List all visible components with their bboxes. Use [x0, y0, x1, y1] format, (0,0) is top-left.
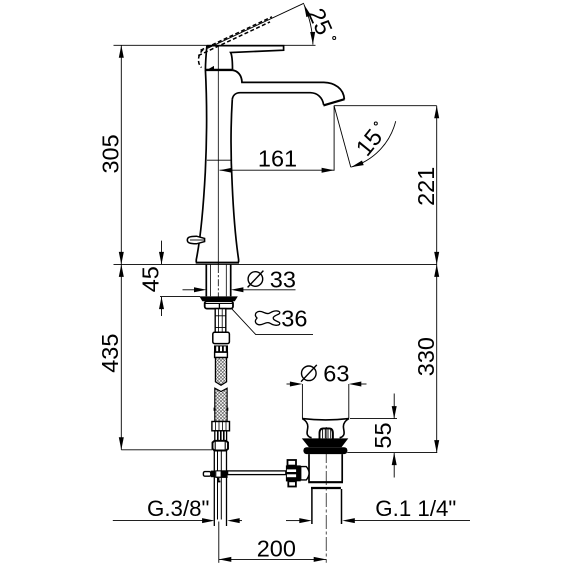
dimension 45 line: [159, 241, 200, 316]
hose lower knurled collar: [212, 422, 230, 431]
svg-text:G.1 1/4": G.1 1/4": [375, 496, 456, 521]
wrench icon: [255, 311, 279, 325]
drain flange bell: [302, 419, 349, 438]
dimension 161 line: [220, 168, 335, 173]
dimension 221 line: [434, 106, 439, 265]
spout outlet face: [323, 99, 344, 105]
column right edge: [231, 99, 239, 262]
hose knurled collar: [214, 345, 228, 357]
column left edge: [196, 70, 206, 262]
faucet cap joint: [205, 69, 233, 71]
rod adjuster knurled nut: [286, 460, 297, 487]
rod adjuster black band: [297, 465, 301, 481]
dimension G.1 1/4 line: [286, 518, 470, 523]
mounting washer (black): [199, 296, 237, 301]
hose connector block: [213, 332, 230, 343]
svg-text:55: 55: [370, 422, 396, 448]
svg-text:305: 305: [97, 134, 123, 173]
shank below deck: [206, 265, 230, 297]
svg-text:33: 33: [270, 267, 296, 293]
pop-up rod knob: [187, 236, 204, 244]
handle base wedge: [207, 66, 215, 70]
dimension 305 line: [119, 45, 124, 264]
hose threaded segment: [215, 431, 227, 441]
svg-text:G.3/8": G.3/8": [147, 496, 209, 521]
dimension 435 line: [119, 264, 124, 449]
ball rod socket: [301, 467, 309, 480]
drain plug knob: [320, 428, 333, 438]
horizontal pop-up rod: [228, 471, 286, 475]
extension line: deck / mounting surface: [114, 263, 437, 265]
braided hose upper: [215, 358, 226, 386]
svg-text:435: 435: [97, 334, 123, 373]
svg-text:221: 221: [413, 167, 439, 206]
degree mark 15: [374, 122, 377, 125]
dimension G.3/8 line: [113, 518, 242, 523]
drain centerline: [325, 427, 327, 563]
svg-text:200: 200: [257, 536, 296, 562]
extension line: spout outlet level: [334, 105, 437, 107]
drain gasket bar (black): [303, 447, 347, 454]
drain valve body: [308, 454, 343, 488]
extension line: handle top level: [114, 44, 316, 46]
spout inner contour: [232, 93, 323, 105]
spout outer contour: [233, 70, 345, 99]
faucet lever handle: [207, 46, 284, 70]
dimension 200 line: [219, 522, 326, 563]
angle 15 vertical leg: [333, 106, 335, 171]
svg-text:330: 330: [413, 337, 439, 376]
angle 15 slanted leg: [334, 106, 351, 167]
extension line: hose end level (bottom left): [121, 449, 212, 451]
dimension 55 line: [350, 394, 397, 478]
faucet centerline: [217, 45, 219, 266]
angle 25 line: [208, 3, 305, 48]
mounting nut: [205, 301, 233, 308]
faucet neck left edge: [205, 46, 207, 70]
drain tailpipe: [312, 489, 342, 524]
column joint tick: [207, 159, 231, 161]
angle 15 arc: [350, 121, 395, 169]
dimension D63 text: [301, 361, 349, 387]
braided hose lower: [215, 388, 227, 421]
base bottom edge: [196, 262, 239, 264]
rod clamp: [203, 470, 227, 482]
dimension D33 line: [183, 287, 296, 292]
svg-text:161: 161: [258, 146, 297, 172]
hose tail tube: [214, 451, 226, 526]
hose upper tube: [215, 309, 226, 333]
dimension 330 line: [434, 264, 439, 452]
angle 25 arc: [302, 4, 316, 45]
degree mark 25: [333, 37, 336, 40]
open handle dashed outline: [198, 17, 272, 68]
drain gasket (black trapezoid): [302, 438, 349, 447]
extension line: drain outlet level (bottom right): [347, 452, 437, 454]
svg-text:45: 45: [138, 266, 164, 292]
svg-text:36: 36: [281, 305, 307, 331]
hose hex nut: [213, 441, 229, 451]
wrench 36 leader: [221, 297, 313, 334]
dimension D33 text: [248, 267, 296, 293]
dimension D63 line: [287, 382, 367, 419]
svg-text:63: 63: [323, 361, 349, 387]
